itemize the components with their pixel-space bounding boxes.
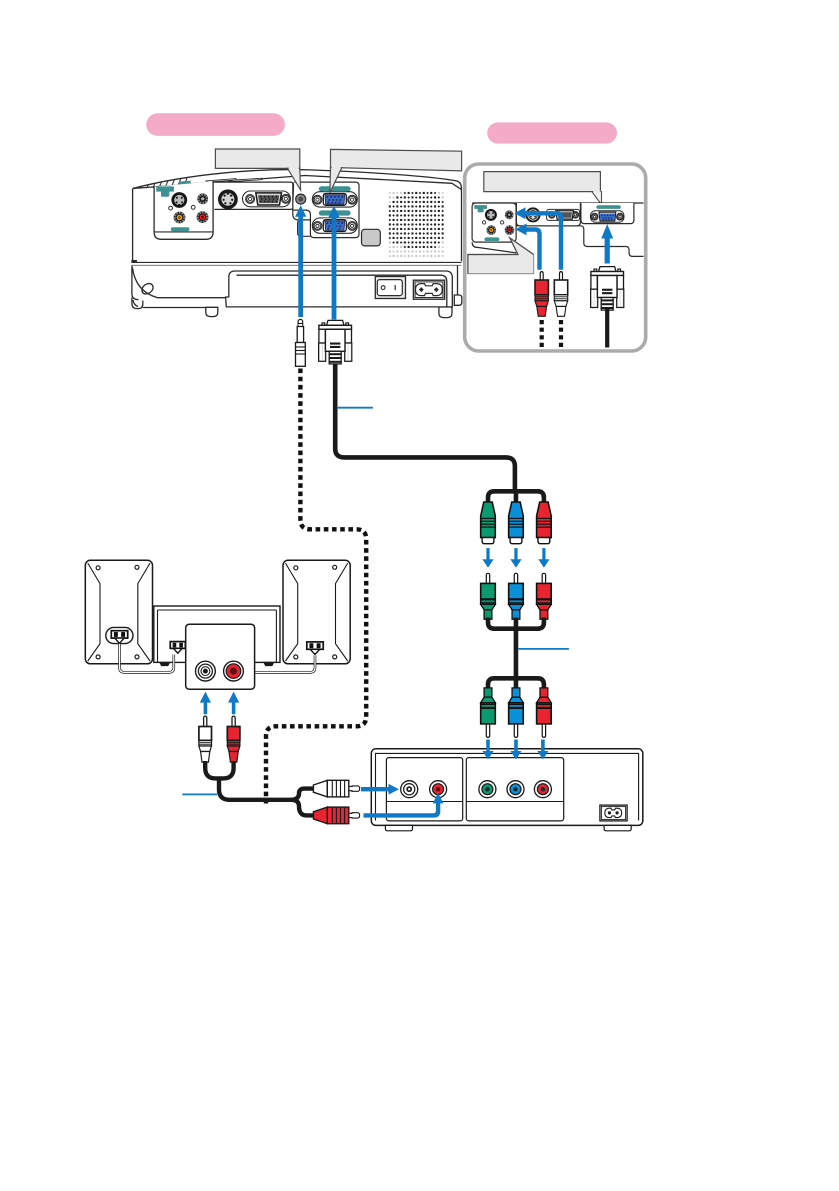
inset body step contour (516, 226, 643, 257)
white RCA plug to DVD audio L (313, 780, 359, 797)
DVD component jack Y (green) (479, 781, 496, 798)
arrow to COMPUTER1 (328, 206, 339, 320)
DVD component panel (466, 758, 563, 821)
speaker wire left (120, 644, 174, 673)
inset arrow to COMPUTER IN (601, 224, 613, 264)
inset red RCA jack (505, 225, 515, 235)
projector seam lines (132, 261, 462, 266)
inset yellow RCA jack (487, 225, 497, 235)
inset callout box top (484, 172, 602, 205)
inset PC control s-video (526, 208, 539, 221)
breakout bar 2 (488, 618, 544, 676)
left speaker terminal (106, 627, 133, 643)
blue male plug up (509, 573, 524, 619)
inset teal tab (474, 205, 487, 212)
inset teal bar (485, 237, 500, 241)
pink label right (487, 122, 617, 143)
middle connector block (211, 182, 294, 209)
inset screw holes (482, 221, 485, 224)
arrows female->male 1 (482, 548, 493, 568)
blue callout line (audio cable) (182, 793, 217, 795)
white RCA plug to AUX (199, 716, 212, 762)
red RCA plug to AUX (227, 716, 240, 762)
red AUX jack (224, 661, 244, 681)
callout pointer A (288, 168, 301, 190)
VGA to component cable (335, 364, 515, 493)
green male plug down (481, 688, 496, 738)
speaker wire right (255, 656, 316, 673)
DVD audio out panel (386, 758, 462, 821)
screw holes video block (169, 206, 173, 210)
AC inlet (413, 280, 444, 299)
PC control s-video connector (218, 189, 238, 209)
DVD component jack Cb (blue) (507, 781, 524, 798)
arrow to audio mini jack (295, 205, 306, 317)
blue callout line (component cable) (518, 648, 569, 650)
stereo AUX input closeup box (186, 624, 255, 689)
red male plug down (537, 688, 552, 738)
arrows into AUX jacks (200, 692, 211, 715)
3.5mm stereo mini plug (296, 319, 306, 366)
inset video block (472, 203, 516, 253)
right speaker terminal (307, 642, 323, 649)
inset teal bar computer (596, 205, 620, 209)
stereo speaker terminal L (170, 642, 185, 649)
arrow into DVD audio L (361, 784, 399, 795)
stereo unit (154, 606, 280, 666)
inset rounded border (465, 164, 646, 351)
DVD audio L jack (white) (401, 781, 418, 798)
VGA plug to COMPUTER1 (319, 320, 352, 364)
pink label left (146, 113, 285, 136)
green female socket (481, 502, 496, 544)
green male plug up (481, 573, 496, 619)
callout pointer B (330, 168, 342, 193)
red audio RCA jack (197, 211, 209, 223)
audio cable white branch (205, 761, 316, 800)
callout box A (audio) (215, 149, 299, 168)
red female socket (537, 502, 552, 544)
inset white RCA plug (554, 272, 567, 317)
monitor out VGA connector (gray) (243, 191, 291, 207)
audio cable red branch (221, 761, 316, 815)
inset VGA cable (605, 309, 609, 348)
inset COMPUTER IN connector (591, 211, 625, 222)
audio knurled jack (VIDEO block) (197, 193, 208, 204)
inset COMPUTER block (581, 203, 634, 224)
blue callout line (vga cable) (337, 407, 373, 409)
DVD player body (371, 749, 643, 826)
COMPUTER 2 IN connector (312, 218, 357, 233)
inset arrow to red jack (bent) (515, 224, 541, 270)
right speaker (283, 560, 350, 664)
vent hole grid (389, 192, 444, 258)
callout box B (computer) (331, 149, 462, 171)
gray square button (362, 229, 381, 246)
inset monitor out VGA gray (547, 209, 580, 220)
inset middle block (516, 203, 580, 226)
COMPUTER 1 IN connector (312, 192, 357, 207)
inset audio knurled jack (505, 210, 514, 219)
red RCA plug to DVD audio R (313, 807, 359, 824)
arrow into DVD audio R (bent) (364, 793, 444, 818)
inset red RCA plug w/ arrow (535, 272, 548, 317)
teal bar (video block bottom) (171, 227, 190, 231)
DVD component jack Cr (red) (534, 781, 551, 798)
teal bar above COMPUTER1 (319, 186, 351, 191)
inset panel top line (472, 202, 643, 204)
projector body outline (133, 170, 462, 262)
left speaker (85, 560, 152, 664)
white AUX jack (196, 661, 216, 681)
DVD AC inlet (600, 805, 627, 821)
blue male plug down (509, 688, 524, 738)
computer block (293, 182, 359, 238)
projector lower body (132, 265, 458, 308)
red male plug up (537, 573, 552, 619)
teal tab (video block) (156, 186, 174, 196)
inset VGA plug (591, 267, 624, 311)
teal bar above COMPUTER2 (319, 210, 351, 215)
arrows into DVD component jacks (482, 740, 493, 760)
s-video connector (VIDEO block) (171, 192, 187, 208)
projector bottom raised panel (226, 271, 453, 307)
video connector block (154, 181, 213, 239)
inset arrow to audio jack (bent) (514, 207, 563, 269)
breakout bar 1 (488, 491, 544, 502)
power switch (375, 277, 405, 299)
projector rear feet (206, 295, 462, 318)
blue female socket (509, 502, 524, 544)
audio in mini jack (296, 194, 306, 204)
breakout bar 3 (488, 675, 544, 690)
teal sliver on top band (179, 181, 191, 185)
inset callout box bottom-left (468, 238, 534, 274)
yellow video RCA jack (174, 212, 186, 224)
inset s-video connector (485, 209, 497, 221)
DVD audio R jack (red) (430, 781, 447, 798)
DVD feet (385, 825, 631, 830)
dashed audio cable (266, 369, 366, 804)
